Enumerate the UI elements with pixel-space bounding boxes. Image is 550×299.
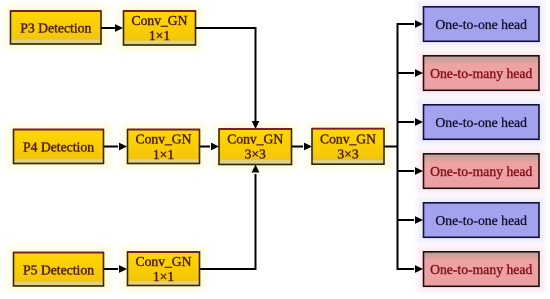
svg-text:Conv_GN: Conv_GN: [136, 254, 192, 269]
wire branch to head 1: [397, 20, 424, 28]
box P4 Detection: [13, 130, 104, 164]
svg-text:P3 Detection: P3 Detection: [20, 21, 91, 36]
svg-text:One-to-many head: One-to-many head: [430, 164, 532, 179]
svg-text:Conv_GN: Conv_GN: [227, 132, 283, 147]
box Conv_GN 1x1 middle: [127, 130, 200, 164]
box P3 Detection: [10, 11, 101, 44]
svg-text:1×1: 1×1: [149, 28, 170, 43]
svg-text:1×1: 1×1: [153, 269, 174, 284]
svg-text:One-to-many head: One-to-many head: [430, 66, 532, 81]
wire Conv_GN 1x1 top to Conv_GN 3x3 first (right then down): [196, 28, 260, 129]
wire branch to head 4: [397, 167, 424, 175]
box One-to-one head 5: [424, 203, 540, 238]
svg-text:Conv_GN: Conv_GN: [136, 132, 192, 147]
wire branch to head 2: [397, 69, 424, 77]
wire Conv_GN 3x3 first to Conv_GN 3x3 second: [292, 143, 313, 151]
box Conv_GN 3x3 first: [219, 129, 292, 165]
wire P3 to Conv_GN 1x1 top: [101, 24, 123, 32]
box Conv_GN 1x1 top: [123, 11, 196, 45]
wire Conv_GN 1x1 middle to Conv_GN 3x3 first: [200, 143, 220, 151]
svg-text:One-to-one head: One-to-one head: [435, 213, 527, 228]
svg-text:3×3: 3×3: [245, 147, 266, 162]
svg-text:One-to-one head: One-to-one head: [435, 115, 527, 130]
box One-to-many head 2: [424, 56, 540, 91]
wire Conv_GN 3x3 second to trunk: [384, 146, 398, 148]
wire P4 to Conv_GN 1x1 middle: [104, 143, 128, 151]
box One-to-many head 4: [424, 154, 540, 189]
wire Conv_GN 1x1 bottom to Conv_GN 3x3 first (right then up): [200, 165, 260, 270]
box Conv_GN 1x1 bottom: [127, 252, 200, 286]
svg-text:One-to-many head: One-to-many head: [430, 262, 532, 277]
box Conv_GN 3x3 second: [312, 129, 385, 165]
box P5 Detection: [13, 253, 104, 287]
wire branch to head 5: [397, 216, 424, 224]
wire branch to head 6: [397, 265, 424, 273]
wire branch to head 3: [397, 118, 424, 126]
svg-text:One-to-one head: One-to-one head: [435, 17, 527, 32]
svg-text:Conv_GN: Conv_GN: [320, 132, 376, 147]
svg-text:3×3: 3×3: [337, 146, 358, 161]
box One-to-one head 1: [424, 7, 540, 42]
box One-to-one head 3: [424, 105, 540, 140]
svg-text:P5 Detection: P5 Detection: [23, 263, 94, 278]
svg-text:1×1: 1×1: [153, 147, 174, 162]
svg-text:P4 Detection: P4 Detection: [23, 140, 94, 155]
svg-text:Conv_GN: Conv_GN: [132, 13, 188, 28]
wire P5 to Conv_GN 1x1 bottom: [104, 265, 128, 273]
wire trunk vertical: [397, 24, 399, 269]
box One-to-many head 6: [424, 252, 540, 286]
